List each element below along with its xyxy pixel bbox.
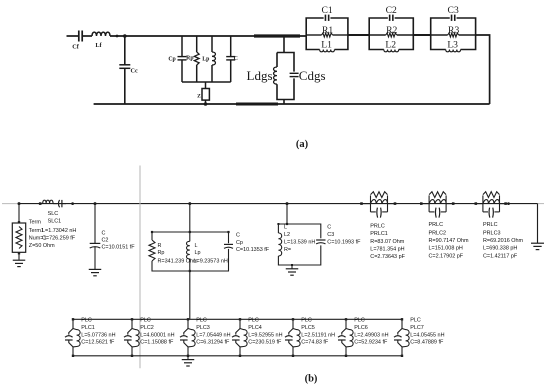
svg-text:C3: C3 xyxy=(327,232,334,238)
wire: output return to bottom rail xyxy=(476,35,490,104)
svg-text:Z=50 Ohm: Z=50 Ohm xyxy=(29,243,55,249)
svg-text:C=1.42117 pF: C=1.42117 pF xyxy=(483,253,518,259)
svg-text:R: R xyxy=(158,243,162,249)
svg-text:PLC: PLC xyxy=(410,318,421,324)
svg-text:L=151.008 pH: L=151.008 pH xyxy=(429,246,463,252)
svg-text:R=: R= xyxy=(284,247,291,253)
svg-text:C=10.0151 fF: C=10.0151 fF xyxy=(102,244,136,250)
capacitor C2 (shunt to ground) xyxy=(90,204,101,270)
svg-text:C: C xyxy=(236,233,240,239)
wire: vertical from rail down to PLC bus (through Lp branch) xyxy=(189,204,191,320)
svg-text:L=9.52955 nH: L=9.52955 nH xyxy=(248,332,282,338)
svg-text:R2: R2 xyxy=(386,25,397,36)
svg-text:L=13.539 nH: L=13.539 nH xyxy=(284,240,315,246)
svg-text:C=2.73643 pF: C=2.73643 pF xyxy=(370,254,405,260)
RLC tank 1: capacitor C1, resistor R1, inductor L1 xyxy=(306,5,348,52)
node: junction on top rail xyxy=(116,35,119,38)
svg-text:Cp: Cp xyxy=(168,57,175,63)
svg-text:PRLC1: PRLC1 xyxy=(370,231,388,237)
label Cp xyxy=(236,233,270,254)
grid line (light gray vertical) xyxy=(139,166,141,369)
svg-text:PRLC2: PRLC2 xyxy=(429,230,447,236)
series PRLC3 (parallel R-L-C) xyxy=(475,192,507,218)
svg-text:Cf: Cf xyxy=(72,44,79,51)
svg-text:L=4.05455 nH: L=4.05455 nH xyxy=(410,332,444,338)
label PLC6 xyxy=(354,318,388,346)
capacitor C (branch) xyxy=(226,36,238,82)
RLC tank 2: capacitor C2, resistor R2, inductor L2 xyxy=(369,5,413,52)
impedance Z (small box to bottom rail) xyxy=(197,82,209,104)
label SLC1 xyxy=(42,211,76,241)
series LC SLC1 (inductor + capacitor) xyxy=(43,200,66,207)
svg-text:C: C xyxy=(327,225,331,231)
svg-text:Cc: Cc xyxy=(131,67,138,74)
wire: main rail of (b) xyxy=(18,203,537,205)
label C2 xyxy=(102,231,136,251)
shunt parallel LC PLC7 xyxy=(394,318,409,357)
wire: faint left stub of (b) rail xyxy=(2,203,18,205)
svg-text:PLC3: PLC3 xyxy=(196,325,210,331)
capacitor Cdgs (parallel box right edge) xyxy=(290,68,326,83)
svg-text:Term: Term xyxy=(29,220,42,226)
ground of L2/C3 box xyxy=(286,265,299,275)
parallel RLC box (Rp, Lp, Cp) xyxy=(149,231,233,272)
caption (b) xyxy=(305,374,318,385)
wire: bottom rail of (a) xyxy=(94,103,490,105)
wire: rail tank2-tank3 xyxy=(413,34,430,36)
svg-text:L3: L3 xyxy=(447,39,458,50)
label PLC4 xyxy=(248,318,282,346)
shunt parallel LC PLC6 xyxy=(338,318,353,357)
shunt parallel LC PLC2 xyxy=(124,318,139,357)
capacitor Cf (series input cap) xyxy=(72,31,92,51)
svg-text:L2: L2 xyxy=(385,39,396,50)
svg-text:C=74.83 fF: C=74.83 fF xyxy=(301,340,329,346)
svg-text:L=7.05449 nH: L=7.05449 nH xyxy=(196,332,230,338)
ground of Term1 xyxy=(13,260,26,266)
capacitor Cc (shunt) xyxy=(119,36,138,104)
svg-text:C1: C1 xyxy=(321,5,332,16)
node: SLC input pin xyxy=(39,202,42,205)
label C3 xyxy=(327,225,361,246)
svg-text:SLC: SLC xyxy=(48,211,59,217)
svg-text:Rp: Rp xyxy=(186,56,193,62)
svg-text:Lf: Lf xyxy=(95,42,102,49)
svg-text:PLC2: PLC2 xyxy=(140,325,154,331)
shunt parallel LC PLC1 xyxy=(65,318,80,357)
svg-text:C=230.519 fF: C=230.519 fF xyxy=(248,340,282,346)
label Rp xyxy=(158,243,199,265)
svg-text:L: L xyxy=(284,225,287,231)
svg-text:L: L xyxy=(195,243,198,249)
svg-text:C=12.5621 fF: C=12.5621 fF xyxy=(81,340,115,346)
label PRLC1 xyxy=(370,224,405,261)
svg-text:R=341.239 Ohm: R=341.239 Ohm xyxy=(158,259,199,265)
ground of C2 xyxy=(89,269,102,275)
svg-text:C=1.15088 fF: C=1.15088 fF xyxy=(140,340,174,346)
svg-text:L1: L1 xyxy=(321,39,332,50)
svg-text:L=4.60001 nH: L=4.60001 nH xyxy=(140,332,174,338)
node: junction of Z at bottom rail xyxy=(204,102,208,106)
svg-text:C=8.47889 fF: C=8.47889 fF xyxy=(410,340,444,346)
svg-text:L=781.354 pH: L=781.354 pH xyxy=(370,247,404,253)
label Term1 xyxy=(29,220,55,249)
svg-text:PRLC: PRLC xyxy=(429,222,444,228)
caption (a) xyxy=(296,139,309,150)
RLC tank 3: capacitor C3, resistor R3, inductor L3 xyxy=(431,5,476,52)
label PLC5 xyxy=(301,318,335,346)
svg-text:L=2.51191 nH: L=2.51191 nH xyxy=(301,332,335,338)
ground at right end of rail xyxy=(531,243,544,249)
svg-text:Z: Z xyxy=(197,94,201,100)
node: SLC output pin xyxy=(71,202,74,205)
label Lp xyxy=(194,243,228,265)
svg-text:PLC6: PLC6 xyxy=(354,325,368,331)
svg-text:PLC: PLC xyxy=(196,318,207,324)
svg-text:R=69.2016 Ohm: R=69.2016 Ohm xyxy=(483,238,524,244)
svg-text:C: C xyxy=(102,231,106,237)
wire: sub-network bottom bus xyxy=(182,81,231,83)
svg-text:PLC1: PLC1 xyxy=(81,325,95,331)
svg-text:C2: C2 xyxy=(386,5,397,16)
node: junction at x=190 on rail xyxy=(188,202,191,205)
node: C2 tap junction xyxy=(94,202,97,205)
svg-text:C=726.259 fF: C=726.259 fF xyxy=(42,236,76,242)
svg-text:C=6.31294 fF: C=6.31294 fF xyxy=(196,340,230,346)
label PLC1 xyxy=(81,318,115,346)
inductor Ldgs (parallel box left edge) xyxy=(247,36,295,104)
svg-text:PLC: PLC xyxy=(81,318,92,324)
resistor Rp (branch) xyxy=(186,36,199,82)
svg-text:C=10.1993 fF: C=10.1993 fF xyxy=(327,240,361,246)
svg-text:L2: L2 xyxy=(284,232,290,238)
svg-text:Rp: Rp xyxy=(158,250,165,256)
wire: input lead of (a) xyxy=(67,35,79,37)
svg-text:R3: R3 xyxy=(448,25,459,36)
wire: top rail of (a) xyxy=(110,35,306,37)
shunt parallel LC PLC4 xyxy=(232,318,247,357)
svg-text:PLC: PLC xyxy=(248,318,259,324)
svg-text:PRLC3: PRLC3 xyxy=(483,230,501,236)
node: junction at x=287 on rail xyxy=(286,202,289,205)
svg-text:C: C xyxy=(234,56,238,62)
svg-text:Lp: Lp xyxy=(195,250,201,256)
svg-text:PLC: PLC xyxy=(301,318,312,324)
svg-text:Ldgs: Ldgs xyxy=(247,68,273,83)
inductor Lf (series input inductor) xyxy=(92,32,110,49)
svg-text:C=2.17902 pF: C=2.17902 pF xyxy=(429,253,464,259)
svg-text:R1: R1 xyxy=(322,25,333,36)
svg-text:L=1.73042 nH: L=1.73042 nH xyxy=(42,228,76,234)
svg-text:C=10.1353 fF: C=10.1353 fF xyxy=(236,247,270,253)
shunt parallel LC PLC5 xyxy=(285,318,300,357)
wire: faint right stub of (b) rail xyxy=(538,203,545,205)
svg-text:Lp: Lp xyxy=(202,57,209,63)
inductor Lp (branch) xyxy=(202,36,215,82)
series PRLC1 (parallel R-L-C) xyxy=(360,192,396,218)
svg-text:PLC: PLC xyxy=(354,318,365,324)
svg-text:PLC7: PLC7 xyxy=(410,325,424,331)
node: Term tap junction xyxy=(18,202,21,205)
svg-text:C=52.9234 fF: C=52.9234 fF xyxy=(354,340,388,346)
svg-text:PLC4: PLC4 xyxy=(248,325,262,331)
svg-text:Cdgs: Cdgs xyxy=(299,68,326,83)
label L2 xyxy=(284,225,315,253)
svg-text:L=2.49903 nH: L=2.49903 nH xyxy=(354,332,388,338)
wire: rail tank1-tank2 xyxy=(348,34,369,36)
parallel LC box (L2, C3) shunt xyxy=(277,204,325,266)
svg-text:L=690.338 pH: L=690.338 pH xyxy=(483,246,517,252)
capacitor Cp (branch) xyxy=(168,36,186,82)
label PLC2 xyxy=(140,318,174,346)
svg-text:PRLC: PRLC xyxy=(483,222,498,228)
svg-text:L=5.07736 nH: L=5.07736 nH xyxy=(81,332,115,338)
node: junction at Cc tap xyxy=(123,34,127,38)
svg-text:C2: C2 xyxy=(102,238,109,244)
svg-text:(a): (a) xyxy=(296,139,309,150)
shunt parallel LC PLC3 xyxy=(180,318,195,357)
label PLC7 xyxy=(410,318,444,346)
series PRLC2 (parallel R-L-C) xyxy=(420,192,455,218)
svg-text:R=90.7147 Ohm: R=90.7147 Ohm xyxy=(429,238,470,244)
ground under PLC3 xyxy=(182,356,195,366)
label PLC3 xyxy=(196,318,230,346)
svg-text:Cp: Cp xyxy=(236,240,243,246)
wire: rail end drop to ground xyxy=(537,204,539,243)
svg-text:PRLC: PRLC xyxy=(370,224,385,230)
svg-text:PLC5: PLC5 xyxy=(301,325,315,331)
svg-text:R=83.07 Ohm: R=83.07 Ohm xyxy=(370,239,404,245)
svg-text:C3: C3 xyxy=(448,5,459,16)
label PRLC2 xyxy=(429,222,470,259)
wire: PLC row bottom bus xyxy=(73,355,402,357)
svg-text:(b): (b) xyxy=(305,374,318,385)
svg-text:SLC1: SLC1 xyxy=(48,219,62,225)
svg-text:PLC: PLC xyxy=(140,318,151,324)
wire: PLC row top bus xyxy=(73,318,402,320)
port Term1 (50 Ohm termination) xyxy=(12,204,25,260)
node: junction after PRLC3 xyxy=(507,202,510,205)
label PRLC3 xyxy=(483,222,524,259)
svg-text:L=9.23573 nH: L=9.23573 nH xyxy=(194,259,228,265)
